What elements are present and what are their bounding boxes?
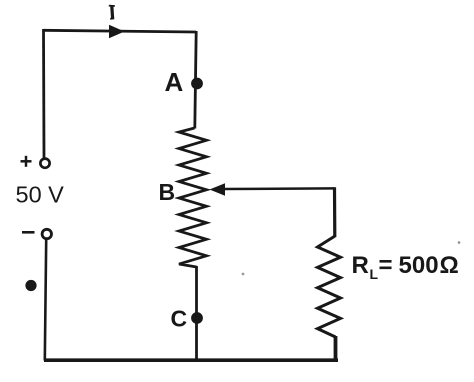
wire right vertical upper (wiper corner down to RL) xyxy=(333,187,336,237)
wire top horizontal xyxy=(44,30,197,32)
scan speck near omega xyxy=(458,241,461,244)
svg-text:C: C xyxy=(171,306,188,332)
wire wiper horizontal xyxy=(223,187,335,190)
svg-text:R: R xyxy=(352,252,369,279)
+ terminal circle xyxy=(40,159,49,168)
stray solder dot (left margin) xyxy=(25,280,36,291)
svg-text:500: 500 xyxy=(399,252,439,279)
label I (current) xyxy=(109,6,115,19)
node C xyxy=(191,312,203,324)
label RL = 500 ohm xyxy=(352,252,459,282)
current arrow I on top wire xyxy=(109,25,125,38)
svg-text:=: = xyxy=(379,252,393,279)
resistor RL xyxy=(318,236,341,337)
battery + terminal symbol xyxy=(21,156,32,167)
wiper arrow head (points left at B) xyxy=(210,183,226,195)
scan speck near pot bottom xyxy=(242,273,245,276)
node A xyxy=(191,78,203,90)
wire middle vertical (top corner down through node A to potentiometer) xyxy=(195,31,196,129)
wire right vertical lower (RL to bottom wire) xyxy=(334,336,338,361)
battery - terminal symbol xyxy=(22,231,35,234)
wire bottom horizontal xyxy=(44,358,338,362)
svg-text:B: B xyxy=(159,179,176,205)
wire left vertical lower (from - terminal to bottom) xyxy=(45,240,46,361)
wire left vertical upper (to + terminal) xyxy=(42,29,45,158)
svg-text:Ω: Ω xyxy=(440,252,459,279)
potentiometer R (between A and C) xyxy=(179,128,207,267)
svg-text:L: L xyxy=(370,266,379,282)
- terminal circle xyxy=(42,229,51,238)
svg-text:50 V: 50 V xyxy=(16,181,65,207)
wire middle vertical lower (pot to bottom through node C) xyxy=(195,266,198,361)
svg-text:A: A xyxy=(165,67,184,97)
